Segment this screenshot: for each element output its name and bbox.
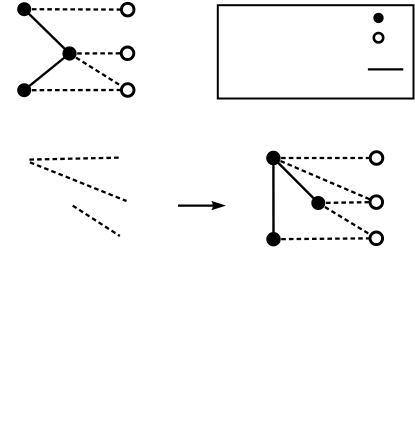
right graph: solid edge A1'-A3' <box>272 158 275 239</box>
right graph: open node B2' <box>370 196 383 209</box>
left graph: dashed edge A1-B1 <box>24 8 128 11</box>
loose dashed edge 3 <box>73 206 120 236</box>
legend: filled node symbol <box>373 13 383 23</box>
right graph: dashed edge A1'-B1' <box>273 157 376 159</box>
right graph: filled node A1' <box>266 151 280 165</box>
left graph: open node B3 <box>121 84 134 97</box>
right graph: dashed edge A2'-B2' <box>318 201 376 204</box>
right graph: dashed edge A1'-B2' <box>273 158 376 202</box>
legend: solid line symbol <box>368 68 403 70</box>
arrow <box>178 201 226 210</box>
legend: open node symbol <box>374 33 383 42</box>
right graph: dashed edge A3'-B3' <box>274 237 377 240</box>
left graph: dashed edge A2-B2 <box>70 52 128 55</box>
left graph: open node B1 <box>121 3 134 16</box>
left graph: dashed edge A3-B3 <box>24 89 128 91</box>
left graph: dashed edge A2-B3 <box>70 54 128 91</box>
left graph: open node B2 <box>121 47 134 60</box>
right graph: dashed edge A2'-B3' <box>318 203 376 238</box>
right graph: open node B3' <box>370 232 383 245</box>
right graph: filled node A3' <box>266 232 280 246</box>
right graph: solid edge A1'-A2' <box>273 158 318 203</box>
right graph: open node B1' <box>370 152 383 165</box>
left graph: filled node A2 <box>62 46 76 60</box>
right graph: filled node A2' <box>311 196 325 210</box>
loose dashed edge 1 <box>29 158 121 160</box>
loose dashed edge 2 <box>30 162 127 201</box>
left graph: solid edge A1-A2 <box>24 9 69 53</box>
left graph: solid edge A3-A2 <box>24 54 69 91</box>
left graph: filled node A1 <box>17 2 31 16</box>
legend box <box>218 5 414 98</box>
left graph: filled node A3 <box>17 83 31 97</box>
